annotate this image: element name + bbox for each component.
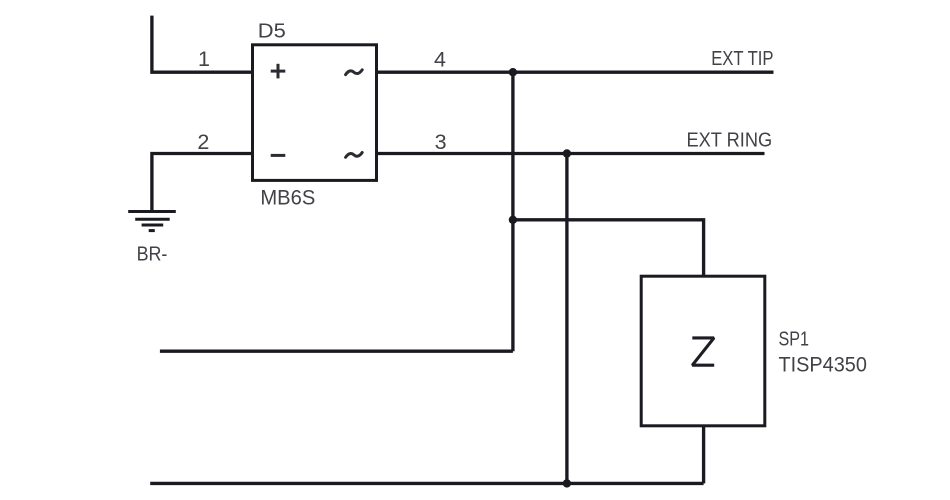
op symbols: tilde bottom xyxy=(346,153,363,158)
symbol letter Z xyxy=(692,338,714,365)
bridge rectifier D5 body xyxy=(253,45,377,181)
wire pin 2 to ground lead xyxy=(152,154,253,212)
suppressor SP1 body xyxy=(641,276,765,426)
svg-text:1: 1 xyxy=(198,47,210,71)
svg-text:SP1: SP1 xyxy=(779,328,810,351)
svg-text:3: 3 xyxy=(435,130,447,154)
op symbols: minus xyxy=(271,154,286,157)
junction dot at EXT RING xyxy=(563,149,571,157)
wire SP1 bottom lead xyxy=(702,426,705,484)
svg-text:TISP4350: TISP4350 xyxy=(779,354,867,377)
svg-text:MB6S: MB6S xyxy=(260,187,315,210)
junction dot at bottom wire xyxy=(563,479,571,487)
wire EXT RING xyxy=(377,152,765,155)
ground xyxy=(128,212,176,231)
wire vertical from EXT TIP junction xyxy=(511,72,514,351)
op symbols: plus xyxy=(271,64,286,79)
svg-text:2: 2 xyxy=(197,130,209,154)
wire vertical from EXT RING junction xyxy=(565,154,568,484)
wire from top into pin 1 xyxy=(152,16,253,73)
svg-text:4: 4 xyxy=(434,47,446,71)
junction dot at branch xyxy=(509,216,517,224)
svg-text:BR-: BR- xyxy=(137,243,168,266)
svg-text:D5: D5 xyxy=(258,20,286,42)
wire bottom horizontal xyxy=(150,482,703,485)
svg-text:EXT TIP: EXT TIP xyxy=(711,48,773,70)
op symbols: tilde top xyxy=(346,70,363,75)
wire mid-left horizontal xyxy=(160,350,513,353)
wire branch to SP1 top xyxy=(513,220,704,276)
wire EXT TIP xyxy=(377,71,774,74)
junction dot at EXT TIP xyxy=(509,68,517,76)
svg-text:EXT RING: EXT RING xyxy=(687,129,773,152)
